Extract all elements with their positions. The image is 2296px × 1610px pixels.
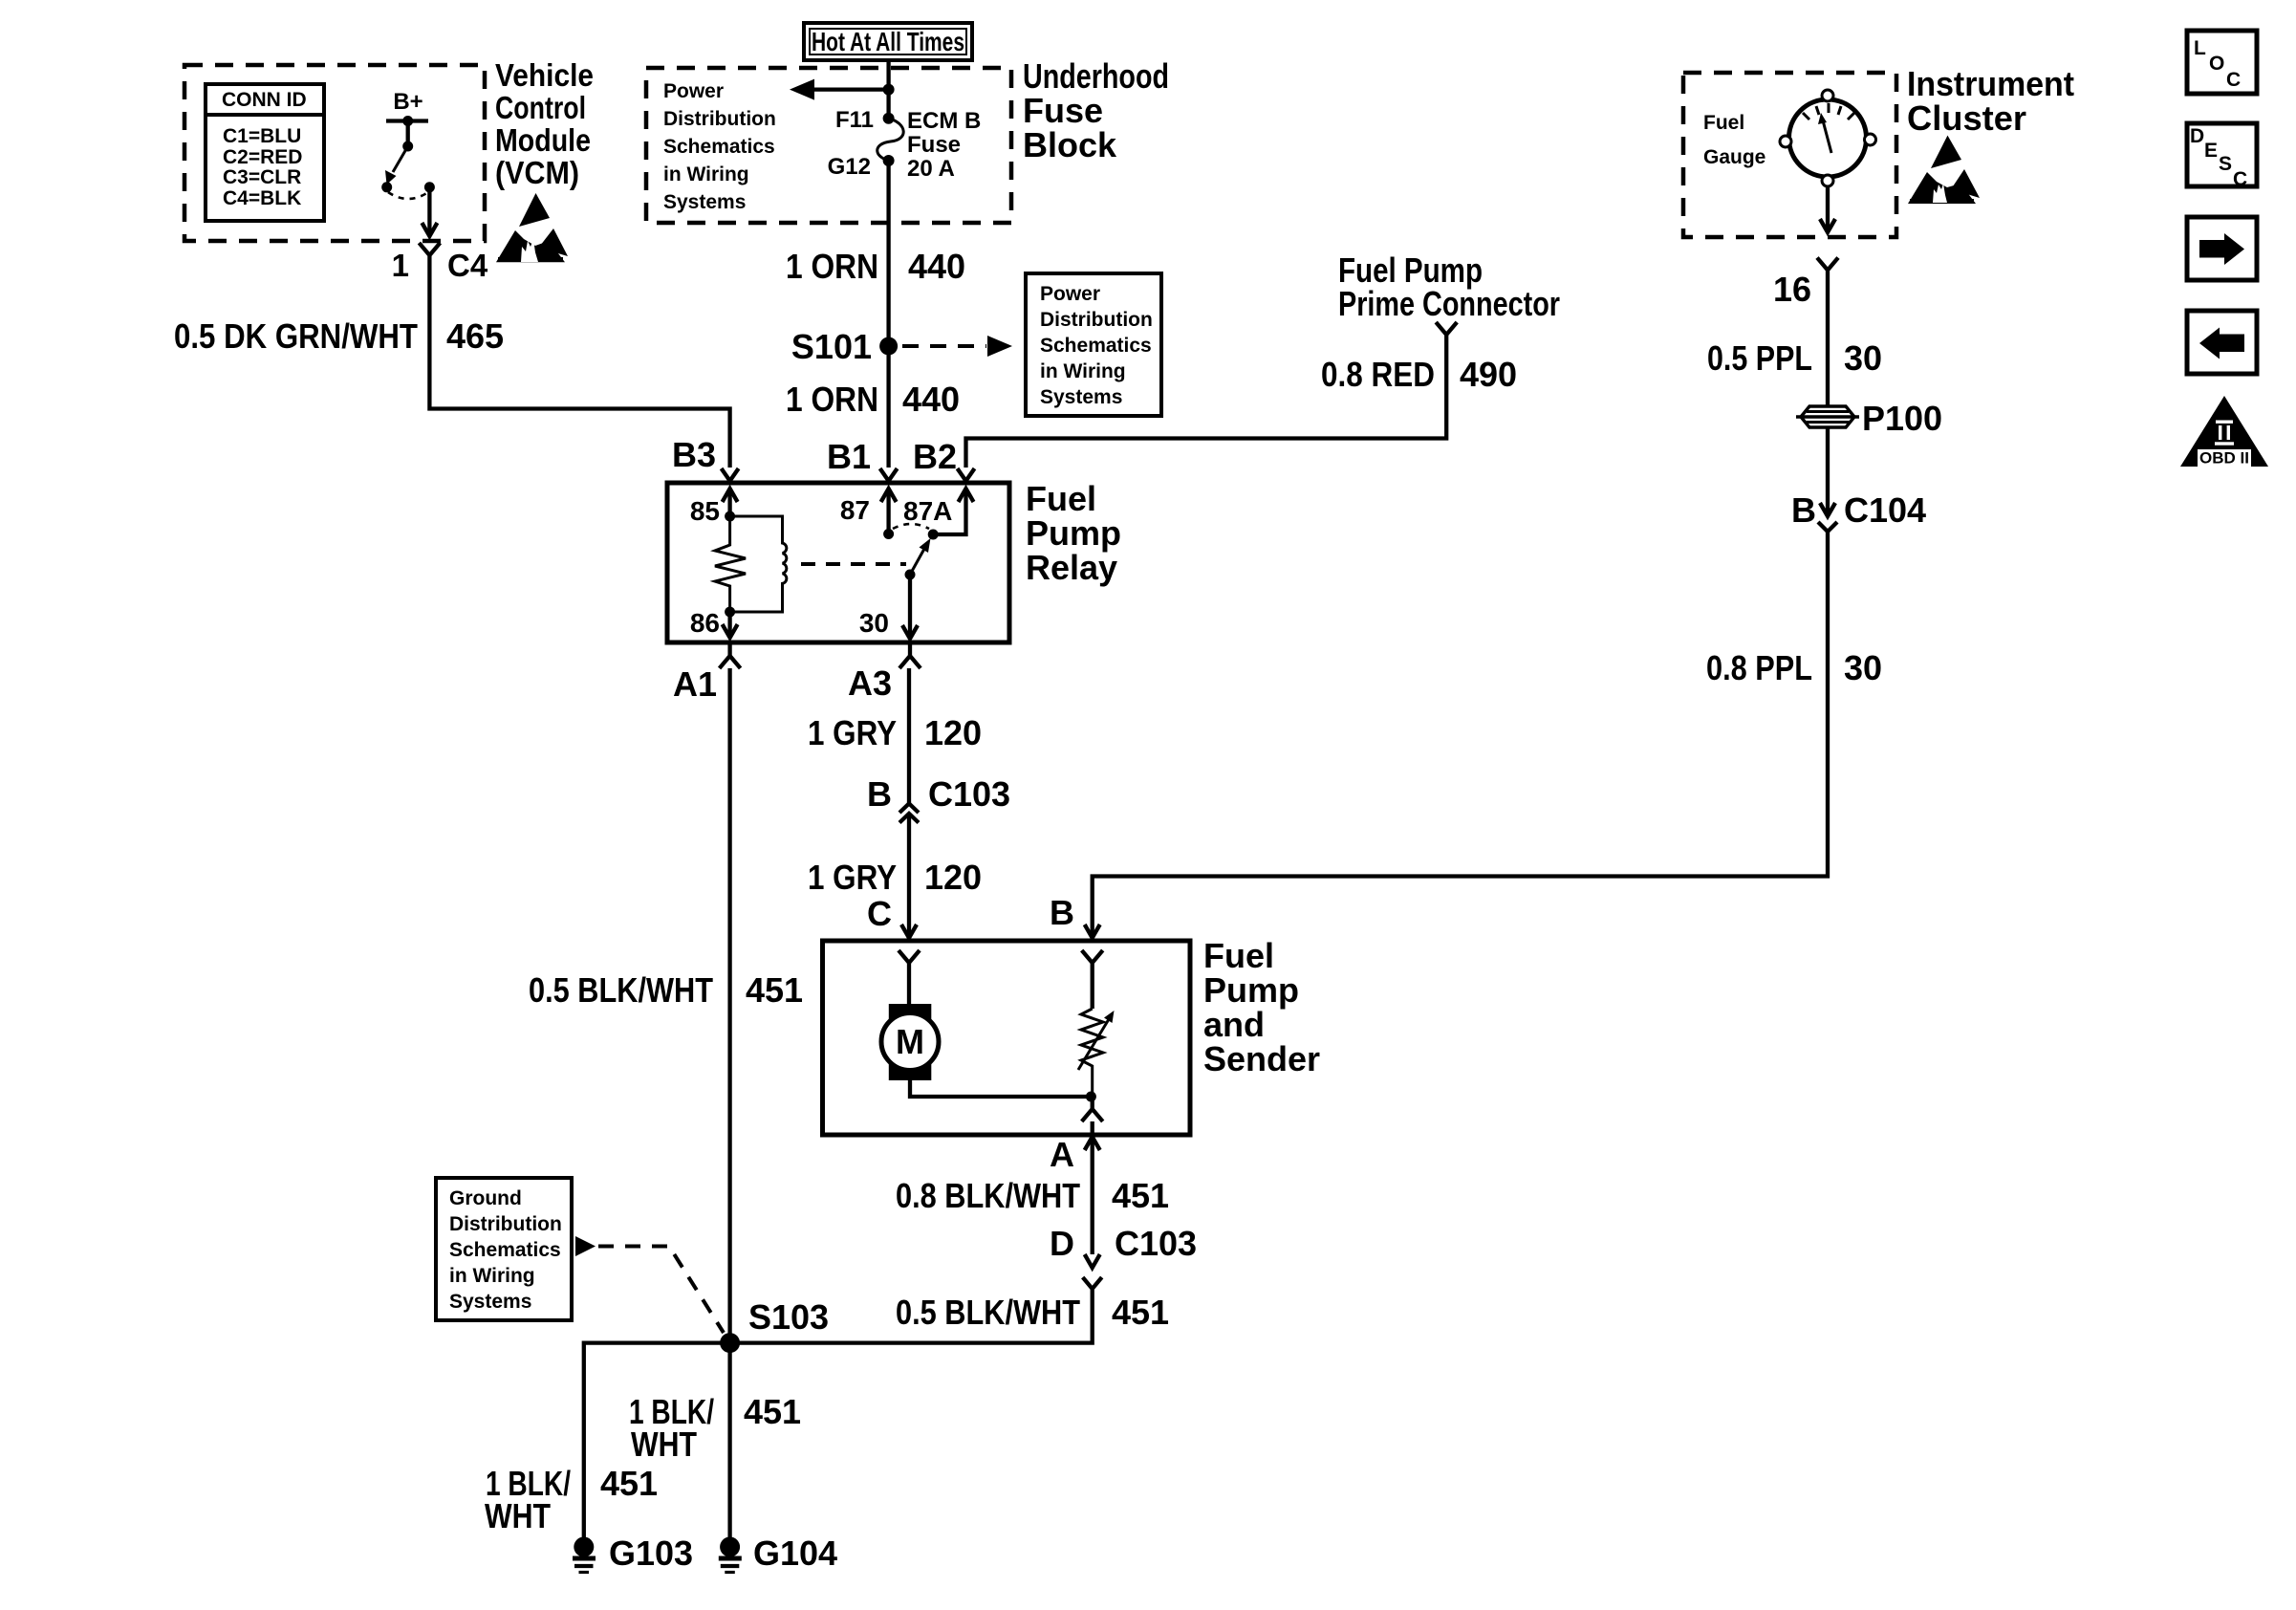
OBD II triangle [2180, 396, 2268, 467]
svg-text:ECM B: ECM B [907, 108, 981, 134]
dashed actuation link [801, 562, 906, 566]
svg-text:Fuel: Fuel [1026, 479, 1096, 518]
svg-text:Gauge: Gauge [1703, 146, 1765, 168]
svg-text:490: 490 [1460, 355, 1517, 394]
wire from gauge to pin 16 arrow down [1826, 186, 1830, 231]
fuel pump motor M [889, 1004, 932, 1024]
wire S103 down to G104 [727, 1343, 731, 1537]
pin 87 contact node [883, 529, 894, 539]
pin 87A contact node [928, 530, 939, 540]
svg-text:(VCM): (VCM) [495, 155, 579, 190]
svg-text:Distribution: Distribution [663, 108, 776, 130]
wire 440 from fuse to S101 [886, 161, 890, 346]
connector C103 lower (facing down) [1085, 1254, 1100, 1268]
svg-text:0.5 BLK/WHT: 0.5 BLK/WHT [896, 1293, 1080, 1332]
wire sender top [1091, 968, 1094, 1009]
Hot At All Times box inner [810, 29, 966, 54]
svg-text:C: C [2233, 168, 2247, 190]
svg-text:WHT: WHT [485, 1496, 551, 1535]
svg-text:Fuse: Fuse [1023, 91, 1103, 130]
svg-text:1 GRY: 1 GRY [808, 713, 897, 752]
wire 451 pin A with arrow up at box bottom [1091, 1121, 1094, 1254]
svg-text:C: C [2226, 69, 2241, 91]
svg-text:120: 120 [924, 858, 982, 897]
svg-text:86: 86 [690, 608, 720, 638]
wire 30 from C104 down and left to pump pin B [1093, 532, 1828, 938]
connector Y prime connector [1436, 322, 1457, 339]
svg-text:440: 440 [908, 247, 965, 286]
fuse F11 ECM B 20A : top terminal [883, 113, 895, 124]
svg-text:L: L [2194, 37, 2206, 59]
svg-text:Systems: Systems [663, 191, 746, 213]
svg-text:G12: G12 [828, 154, 871, 180]
svg-text:30: 30 [859, 608, 889, 638]
connector Y sender out (facing down) [1082, 1097, 1103, 1121]
bus arrow to left (power distribution) [811, 87, 889, 91]
connector Y pin 16 [1817, 258, 1838, 277]
pin 87 wire and arrow up [886, 491, 890, 534]
ground G104 [720, 1537, 740, 1557]
svg-text:Power: Power [1040, 283, 1100, 305]
svg-text:Prime Connector: Prime Connector [1338, 284, 1560, 323]
svg-text:S101: S101 [791, 327, 872, 366]
wire 465 from C4 down and right to B3 [429, 260, 729, 468]
svg-text:G103: G103 [609, 1534, 693, 1573]
CONN ID table header separator [206, 113, 324, 117]
svg-text:1 ORN: 1 ORN [786, 380, 878, 419]
svg-text:451: 451 [1112, 1293, 1169, 1332]
svg-text:A3: A3 [848, 664, 892, 703]
splice S101 [879, 337, 898, 356]
fuel pump and sender box [823, 941, 1191, 1135]
svg-text:0.8 BLK/WHT: 0.8 BLK/WHT [896, 1176, 1080, 1215]
svg-text:Vehicle: Vehicle [495, 57, 594, 93]
svg-text:A1: A1 [673, 664, 717, 704]
gauge tick marks [1803, 113, 1809, 120]
svg-text:A: A [1050, 1135, 1074, 1174]
svg-text:451: 451 [1112, 1176, 1169, 1215]
connector Y pump pin B (inside) [1082, 950, 1103, 968]
pass-through grommet P100 [1801, 406, 1854, 427]
node switch moving contact [381, 182, 392, 192]
svg-text:465: 465 [446, 316, 504, 356]
connector C104 (in-line, facing down) [1820, 496, 1835, 516]
svg-text:1 GRY: 1 GRY [808, 858, 897, 897]
connector C103 (in-line, facing up) [899, 804, 919, 814]
svg-text:Systems: Systems [449, 1291, 531, 1313]
svg-text:Fuse: Fuse [907, 132, 961, 158]
wire 451 from C103 down to S103 run [730, 1293, 1093, 1343]
svg-text:30: 30 [1844, 338, 1882, 378]
connector Y pump pin C (inside) [899, 950, 920, 968]
svg-text:CONN ID: CONN ID [222, 89, 307, 111]
wire from Hot box into fuse block [886, 60, 890, 119]
svg-text:0.8 RED: 0.8 RED [1321, 355, 1435, 394]
svg-text:B: B [1050, 893, 1074, 932]
svg-text:Schematics: Schematics [663, 136, 775, 158]
svg-text:16: 16 [1773, 270, 1811, 309]
svg-text:C4: C4 [447, 248, 488, 283]
svg-text:Ground: Ground [449, 1187, 522, 1209]
svg-text:S: S [2219, 153, 2232, 175]
svg-text:20 A: 20 A [907, 156, 955, 182]
svg-text:Sender: Sender [1203, 1039, 1320, 1078]
wire from P100 to C104 [1826, 427, 1830, 496]
svg-text:B3: B3 [672, 435, 716, 474]
svg-text:Distribution: Distribution [449, 1213, 562, 1235]
connector Y A3 [899, 642, 921, 668]
switch arm (VCM internal switch) [393, 146, 408, 172]
node sender junction [1086, 1092, 1096, 1102]
icon box arrow left [2187, 311, 2257, 374]
svg-text:Schematics: Schematics [1040, 335, 1152, 357]
module box Underhood Fuse Block (dashed) [646, 68, 1011, 223]
wire 451 from A1 down to S103 [727, 668, 731, 1343]
relay switch arm [910, 549, 924, 575]
wire to motor [907, 968, 911, 1006]
svg-text:and: and [1203, 1005, 1265, 1044]
svg-text:WHT: WHT [631, 1425, 697, 1464]
svg-text:30: 30 [1844, 648, 1882, 687]
svg-text:Pump: Pump [1026, 513, 1121, 553]
wire 120 from C103 to pump pin C [907, 838, 911, 938]
svg-text:451: 451 [744, 1392, 801, 1431]
svg-text:Relay: Relay [1026, 548, 1117, 587]
dashed reference arrow from S101 [902, 344, 986, 348]
pin 86 arrow down [727, 612, 731, 635]
arrowhead down at VCM box bottom [422, 223, 437, 236]
icon box DESC [2187, 123, 2257, 186]
pin 30 wire and arrow down [908, 575, 912, 635]
relay switch pivot node [905, 570, 916, 580]
wire B+ stem [406, 121, 410, 147]
svg-text:in Wiring: in Wiring [663, 163, 749, 185]
CONN ID table box [206, 84, 324, 221]
note box Power Distribution Schematics in Wiring Systems [1026, 273, 1161, 416]
icon box LOC [2187, 31, 2257, 94]
node switch pivot [402, 141, 413, 152]
pin 85 arrow up [727, 491, 731, 516]
Hot At All Times box outer [804, 23, 972, 60]
svg-text:in Wiring: in Wiring [1040, 360, 1126, 382]
dashed arc between 87 and 87A [893, 524, 929, 529]
module box Vehicle Control Module (dashed) [184, 65, 485, 241]
gauge needle [1823, 120, 1831, 153]
svg-text:0.5 BLK/WHT: 0.5 BLK/WHT [529, 970, 713, 1010]
svg-text:M: M [896, 1022, 924, 1061]
node switch fixed contact [424, 182, 435, 192]
module box Instrument Cluster (dashed) [1683, 73, 1896, 237]
ground G103 [574, 1537, 594, 1557]
ESD symbol Instrument Cluster [1931, 136, 1961, 168]
svg-text:85: 85 [690, 496, 720, 526]
dashed reference line to S103 [598, 1247, 724, 1334]
relay box Fuel Pump Relay [667, 483, 1009, 642]
svg-text:Systems: Systems [1040, 386, 1122, 408]
fuse element [877, 119, 903, 161]
svg-text:B1: B1 [827, 437, 871, 476]
svg-text:E: E [2204, 140, 2218, 162]
svg-text:C3=CLR: C3=CLR [223, 166, 301, 188]
svg-text:Cluster: Cluster [1907, 98, 2026, 138]
svg-text:D: D [1050, 1224, 1074, 1263]
connector Y B3 [722, 468, 739, 484]
svg-text:1 ORN: 1 ORN [786, 247, 878, 286]
junction node on bus [883, 84, 895, 96]
connector Y B1 [880, 468, 898, 484]
fuse bottom terminal [883, 155, 895, 166]
relay coil resistor (zigzag) [715, 516, 746, 612]
svg-text:Instrument: Instrument [1907, 64, 2074, 103]
wire 120 from A3 down to C103 [907, 668, 911, 803]
sender variable resistor (zigzag) [1081, 1009, 1103, 1097]
wire 490 from prime connector to relay B2 [966, 339, 1447, 468]
svg-text:0.5 DK GRN/WHT: 0.5 DK GRN/WHT [174, 316, 418, 356]
icon box arrow right [2187, 217, 2257, 280]
node coil bottom [725, 607, 735, 618]
svg-text:0.8 PPL: 0.8 PPL [1706, 648, 1812, 687]
svg-text:87: 87 [840, 495, 870, 525]
svg-text:B2: B2 [913, 437, 957, 476]
svg-text:Control: Control [495, 90, 586, 125]
connector Y B2 [958, 468, 975, 484]
svg-text:C2=RED: C2=RED [223, 146, 302, 168]
gauge mounting bumps [1822, 90, 1833, 101]
svg-text:B: B [1791, 490, 1816, 530]
svg-text:Module: Module [495, 122, 591, 158]
svg-text:OBD II: OBD II [2199, 449, 2249, 468]
svg-text:in Wiring: in Wiring [449, 1265, 535, 1287]
svg-text:Fuel: Fuel [1203, 936, 1274, 975]
svg-text:C1=BLU: C1=BLU [223, 125, 301, 147]
svg-text:Hot At All Times: Hot At All Times [812, 27, 964, 56]
svg-text:C104: C104 [1844, 490, 1926, 530]
svg-text:C103: C103 [928, 774, 1010, 814]
svg-text:120: 120 [924, 713, 982, 752]
svg-text:Block: Block [1023, 125, 1117, 164]
relay coil (arcs) [730, 516, 787, 612]
svg-text:O: O [2209, 53, 2224, 75]
node coil top [725, 511, 735, 522]
B+ bus bar [386, 119, 428, 122]
connector Y A1 [720, 642, 741, 668]
wire from fixed contact down [427, 187, 431, 235]
svg-text:451: 451 [600, 1464, 658, 1503]
svg-text:87A: 87A [903, 496, 952, 526]
reference arrow from ground note box [575, 1236, 596, 1256]
splice S103 [720, 1333, 740, 1353]
svg-text:C4=BLK: C4=BLK [223, 187, 301, 209]
svg-text:440: 440 [902, 380, 960, 419]
svg-text:451: 451 [746, 970, 803, 1010]
svg-text:0.5 PPL: 0.5 PPL [1707, 338, 1812, 378]
dashed travel arc of switch [388, 192, 428, 199]
fuel gauge symbol circle [1789, 99, 1867, 177]
wire S103 branch left to G103 [584, 1343, 730, 1537]
svg-text:Fuel: Fuel [1703, 112, 1744, 134]
wire 87A to B2 arrow up [933, 491, 965, 534]
svg-text:B+: B+ [393, 89, 422, 115]
connector Y pin 1 C4 [419, 243, 440, 260]
svg-text:Power: Power [663, 80, 724, 102]
svg-text:Distribution: Distribution [1040, 309, 1153, 331]
svg-text:S103: S103 [748, 1297, 829, 1337]
svg-text:B: B [867, 774, 892, 814]
svg-text:P100: P100 [1862, 399, 1942, 438]
node on B+ bar [402, 116, 413, 126]
svg-text:C103: C103 [1115, 1224, 1197, 1263]
ESD symbol VCM [519, 193, 550, 227]
svg-text:Schematics: Schematics [449, 1239, 561, 1261]
wire 440 from S101 to relay B1 [886, 346, 890, 468]
svg-text:Pump: Pump [1203, 970, 1299, 1010]
svg-text:C: C [867, 894, 892, 933]
svg-text:Underhood: Underhood [1023, 56, 1169, 96]
svg-text:1: 1 [392, 248, 409, 283]
svg-text:F11: F11 [835, 107, 874, 133]
wire from motor to sender junction [910, 1080, 1091, 1097]
note box Ground Distribution Schematics in Wiring Systems [436, 1178, 572, 1320]
sender wiper arrow [1078, 1019, 1109, 1070]
wire 30 from pin 16 down to P100 [1826, 276, 1830, 406]
svg-text:G104: G104 [753, 1534, 837, 1573]
svg-text:D: D [2190, 125, 2204, 147]
